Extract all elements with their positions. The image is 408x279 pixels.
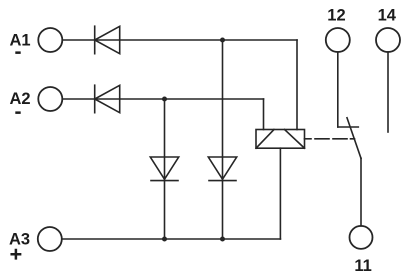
junction V2/bottom bbox=[162, 237, 167, 242]
label 14 bbox=[378, 6, 397, 24]
svg-text:12: 12 bbox=[327, 6, 345, 24]
wire A2 horizontal bbox=[62, 98, 263, 100]
wire branch V2 (from A2 line down) bbox=[164, 99, 166, 239]
label 11 bbox=[354, 257, 371, 275]
relay coil K1 bbox=[256, 130, 305, 149]
svg-text:A2: A2 bbox=[10, 90, 31, 108]
junction A2/V2 bbox=[162, 97, 167, 102]
junction V1/bottom bbox=[220, 237, 225, 242]
wire contact 11 riser bbox=[360, 158, 362, 226]
diode D3 (on V2, cathode down) bbox=[150, 157, 178, 181]
terminal A2 bbox=[38, 87, 62, 111]
label A1 bbox=[10, 32, 31, 50]
junction A1/V1 bbox=[220, 38, 225, 43]
diode D4 (on V1, cathode down) bbox=[208, 157, 236, 181]
wire A2 corner down to coil bbox=[263, 99, 265, 130]
svg-text:A1: A1 bbox=[10, 32, 31, 50]
polarity - (A2) bbox=[15, 111, 20, 114]
diode D2 (A2 series, cathode left) bbox=[95, 85, 120, 113]
wire contact 12 drop bbox=[337, 52, 339, 127]
svg-text:14: 14 bbox=[378, 6, 397, 24]
terminal 12 bbox=[326, 28, 350, 52]
label A3 bbox=[9, 231, 30, 249]
mechanical link (dashed) coil to contact bbox=[305, 138, 355, 140]
label 12 bbox=[327, 6, 345, 24]
terminal 14 bbox=[376, 28, 400, 52]
contact seat (12) bbox=[338, 126, 359, 128]
label A2 bbox=[10, 90, 31, 108]
wire contact 14 drop bbox=[387, 52, 389, 132]
wire coil bottom pin bbox=[279, 148, 281, 239]
polarity + (A3) bbox=[12, 250, 20, 258]
wire A1 corner down to coil bbox=[296, 40, 298, 130]
polarity - (A1) bbox=[15, 51, 20, 54]
svg-text:A3: A3 bbox=[9, 231, 30, 249]
wire A3 horizontal (bottom bus) bbox=[62, 238, 281, 240]
wire A1 horizontal bbox=[62, 39, 297, 41]
diode D1 (A1 series, cathode left) bbox=[95, 26, 120, 54]
wire branch V1 (from A1 line down) bbox=[222, 40, 224, 239]
svg-text:11: 11 bbox=[354, 257, 371, 275]
terminal A3 bbox=[38, 227, 62, 251]
terminal A1 bbox=[38, 28, 62, 52]
contact blade (to 11) bbox=[347, 118, 361, 159]
terminal 11 bbox=[350, 226, 373, 249]
